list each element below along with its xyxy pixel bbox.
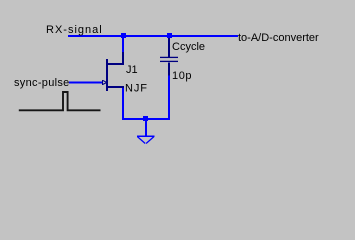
svg-text:sync-pulse: sync-pulse — [14, 77, 70, 89]
svg-text:Ccycle: Ccycle — [172, 41, 205, 53]
svg-text:RX-signal: RX-signal — [46, 24, 103, 36]
svg-text:10p: 10p — [172, 70, 192, 82]
svg-text:J1: J1 — [126, 64, 138, 76]
svg-text:NJF: NJF — [125, 82, 148, 94]
svg-text:to-A/D-converter: to-A/D-converter — [238, 32, 319, 44]
